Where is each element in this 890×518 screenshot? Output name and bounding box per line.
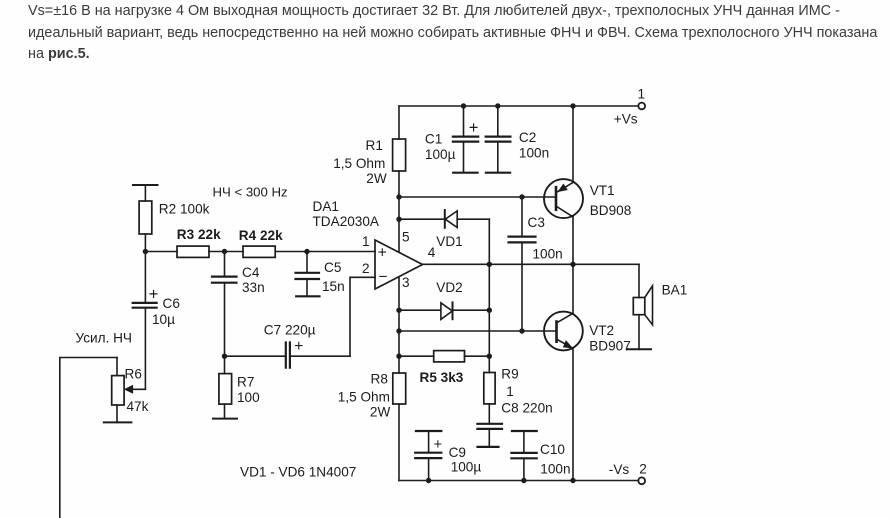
svg-text:R7: R7 bbox=[237, 375, 254, 390]
capacitor C8 bbox=[488, 404, 490, 424]
svg-text:+: + bbox=[469, 119, 479, 137]
svg-text:100n: 100n bbox=[540, 462, 570, 477]
svg-text:15n: 15n bbox=[322, 279, 345, 294]
label input bbox=[76, 331, 132, 346]
potentiometer R6 bbox=[116, 358, 118, 376]
svg-text:3: 3 bbox=[402, 275, 410, 290]
svg-text:100: 100 bbox=[237, 390, 260, 405]
resistor R7 bbox=[224, 356, 226, 373]
svg-text:C6: C6 bbox=[163, 296, 180, 311]
wire input left bbox=[60, 358, 117, 518]
transistor VT1 BD908 bbox=[572, 106, 574, 183]
svg-text:VT1: VT1 bbox=[590, 183, 615, 198]
terminal 1 (+Vs) bbox=[638, 103, 645, 110]
resistor R4 bbox=[243, 246, 275, 257]
op-amp DA1 TDA2030A bbox=[375, 240, 423, 289]
svg-text:-Vs: -Vs bbox=[609, 462, 630, 477]
diode VD2 bbox=[399, 309, 441, 311]
svg-text:VD2: VD2 bbox=[436, 280, 462, 295]
svg-text:C8 220n: C8 220n bbox=[501, 400, 552, 415]
node input chain junctions bbox=[143, 249, 310, 254]
svg-text:1: 1 bbox=[362, 234, 370, 249]
capacitor C4 bbox=[224, 252, 226, 277]
label diodes bbox=[240, 464, 356, 479]
svg-text:10µ: 10µ bbox=[152, 312, 175, 327]
svg-text:2: 2 bbox=[362, 261, 370, 276]
svg-text:−: − bbox=[378, 269, 387, 286]
capacitor C10 bbox=[512, 430, 537, 432]
svg-text:C5: C5 bbox=[324, 260, 341, 275]
svg-text:TDA2030A: TDA2030A bbox=[313, 214, 380, 229]
resistor R2 bbox=[133, 184, 158, 186]
potentiometer R6 wiper arrow bbox=[130, 388, 145, 390]
resistor R5 bbox=[399, 355, 434, 357]
svg-text:+: + bbox=[378, 244, 387, 261]
capacitor C2 bbox=[497, 106, 499, 136]
wire inverting input stub bbox=[350, 277, 375, 356]
diode VD1 bbox=[399, 218, 445, 220]
wire -Vs bottom rail bbox=[399, 480, 638, 482]
capacitor C1 bbox=[463, 106, 465, 136]
svg-text:R1: R1 bbox=[366, 138, 383, 153]
svg-text:C4: C4 bbox=[242, 265, 260, 280]
wire VD1-R9 vertical bbox=[488, 219, 490, 372]
svg-text:5: 5 bbox=[402, 230, 410, 245]
svg-text:VD1: VD1 bbox=[436, 234, 462, 249]
svg-text:100n: 100n bbox=[519, 146, 549, 161]
svg-text:1: 1 bbox=[506, 384, 514, 399]
svg-text:BA1: BA1 bbox=[662, 282, 688, 297]
node junctions on base rail bbox=[396, 194, 524, 199]
capacitor C9 bbox=[416, 430, 441, 432]
svg-text:47k: 47k bbox=[127, 399, 149, 414]
svg-text:1,5 Ohm: 1,5 Ohm bbox=[338, 390, 390, 405]
svg-text:1: 1 bbox=[638, 87, 646, 102]
svg-text:R5 3k3: R5 3k3 bbox=[420, 370, 464, 385]
svg-text:100µ: 100µ bbox=[451, 459, 482, 474]
resistor R3 bbox=[145, 251, 177, 253]
svg-text:BD908: BD908 bbox=[590, 203, 632, 218]
wire +Vs top rail bbox=[399, 105, 638, 107]
svg-text:4: 4 bbox=[428, 245, 436, 260]
svg-text:DA1: DA1 bbox=[313, 199, 339, 214]
svg-text:R2 100k: R2 100k bbox=[159, 201, 210, 216]
svg-text:BD907: BD907 bbox=[589, 339, 631, 354]
wire base rail to VT1 bbox=[399, 196, 556, 198]
svg-text:C1: C1 bbox=[425, 131, 442, 146]
svg-text:2: 2 bbox=[639, 462, 647, 477]
svg-text:+: + bbox=[294, 338, 303, 355]
svg-text:C9: C9 bbox=[449, 445, 466, 460]
speaker BA1 bbox=[638, 264, 640, 297]
node R1-C1 rail junctions bbox=[461, 103, 576, 108]
capacitor C7 bbox=[286, 343, 290, 368]
wire VT2 base rail bbox=[399, 330, 557, 332]
svg-text:2W: 2W bbox=[370, 405, 391, 420]
capacitor C3 bbox=[521, 197, 523, 236]
svg-text:2W: 2W bbox=[366, 171, 387, 186]
svg-text:+: + bbox=[434, 437, 442, 453]
svg-text:+Vs: +Vs bbox=[614, 111, 638, 126]
svg-text:33n: 33n bbox=[242, 280, 265, 295]
svg-text:100µ: 100µ bbox=[425, 147, 456, 162]
svg-text:100n: 100n bbox=[533, 247, 563, 262]
svg-text:R3 22k: R3 22k bbox=[177, 227, 221, 242]
resistor R8 bbox=[398, 277, 400, 373]
svg-text:VT2: VT2 bbox=[589, 323, 614, 338]
svg-text:НЧ < 300 Hz: НЧ < 300 Hz bbox=[213, 184, 288, 199]
svg-text:R9: R9 bbox=[501, 367, 518, 382]
capacitor C5 bbox=[306, 252, 308, 273]
wire feedback rail bbox=[225, 355, 286, 357]
svg-text:C7 220µ: C7 220µ bbox=[264, 323, 316, 338]
svg-text:1,5 Ohm: 1,5 Ohm bbox=[333, 156, 385, 171]
svg-text:VD1 - VD6 1N4007: VD1 - VD6 1N4007 bbox=[240, 464, 356, 479]
svg-text:Усил. НЧ: Усил. НЧ bbox=[76, 331, 132, 346]
svg-text:R8: R8 bbox=[371, 371, 388, 386]
resistor R9 bbox=[484, 373, 495, 404]
terminal 2 (-Vs) bbox=[638, 477, 645, 484]
svg-text:C10: C10 bbox=[540, 442, 565, 457]
resistor R1 bbox=[398, 106, 400, 139]
svg-text:R4 22k: R4 22k bbox=[239, 228, 283, 243]
transistor VT2 BD907 bbox=[572, 264, 574, 313]
svg-text:+: + bbox=[149, 286, 159, 304]
svg-text:R6: R6 bbox=[125, 366, 142, 381]
wire output rail bbox=[423, 263, 640, 265]
capacitor C6 bbox=[133, 303, 157, 308]
svg-text:C2: C2 bbox=[519, 130, 536, 145]
svg-text:C3: C3 bbox=[528, 215, 545, 230]
